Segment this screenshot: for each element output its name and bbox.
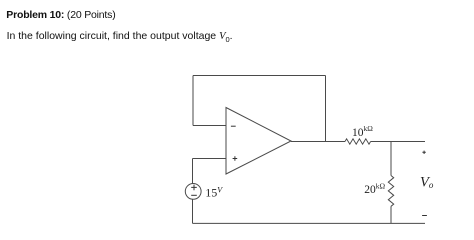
wire: bottom rail [193,222,426,224]
wire: node to 20kΩ top lead [390,142,392,176]
wire: 20kΩ bottom lead [390,206,392,223]
wire: inverting input lead [193,125,226,127]
svg-text:Vo: Vo [420,175,434,191]
wire: feedback left leg [192,76,194,126]
wire: non-inverting input lead [193,158,227,160]
op-amp inverting input marker − [231,125,236,127]
resistor 10kΩ [345,139,371,144]
label output polarity + [422,151,425,154]
wire: 10kΩ to right terminal [371,141,425,143]
wire: source bottom lead [192,199,194,223]
op-amp non-inverting input marker + [233,156,238,161]
voltage source polarity + [191,185,197,191]
resistor 20kΩ [388,176,393,207]
voltage source polarity − [191,194,197,196]
svg-text:20kΩ: 20kΩ [364,181,385,196]
label output polarity − [422,215,427,217]
wire: source top lead [192,159,194,184]
voltage source 15V [185,184,201,200]
wire: feedback right leg to output node [325,76,327,142]
wire: feedback top [193,75,326,77]
svg-text:10kΩ: 10kΩ [352,124,373,139]
svg-text:15V: 15V [205,185,223,199]
op-amp [226,108,291,175]
wire: op-amp output [291,141,345,143]
